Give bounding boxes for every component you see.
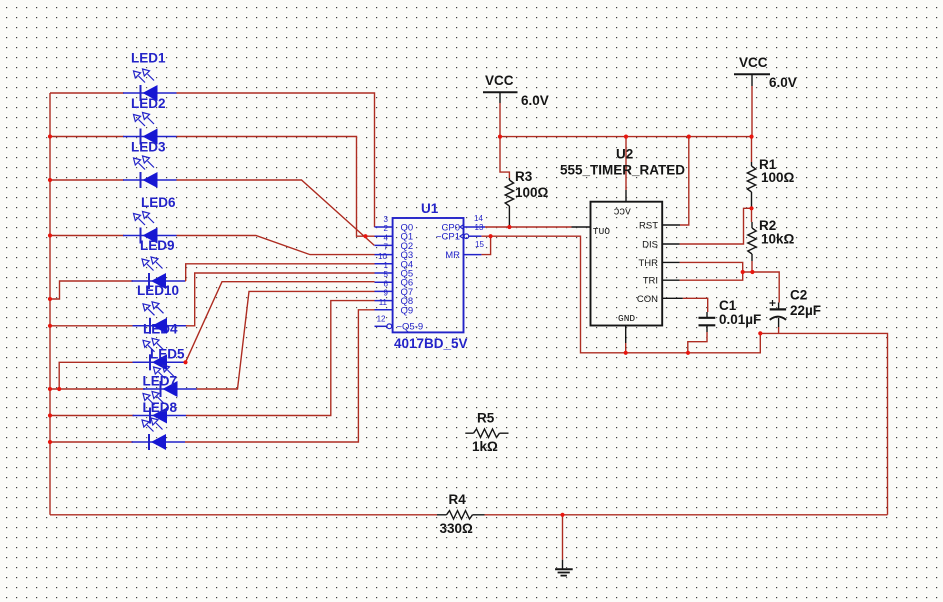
wire CP0 to OUT net [485,226,572,228]
U1 pin 12 carry stub [375,325,387,327]
U1 CP1 bubble [464,234,469,239]
svg-text:14: 14 [474,214,483,223]
LED LED4 [132,418,186,450]
wire DIS to R1R2 junction [680,208,752,244]
svg-text:MR: MR [445,250,460,261]
svg-text:VCC: VCC [739,55,768,70]
svg-text:7: 7 [384,243,389,252]
wire anode LED7 to Q7 slant [197,291,375,389]
svg-text:GND: GND [618,313,635,324]
wire VCC right stem [751,86,753,137]
resistor R4 [437,511,485,519]
U2 OUT pin stub [572,226,591,228]
svg-text:C1: C1 [719,298,737,313]
U1 left pin stubs Q0-Q9 [375,227,393,310]
U1 MR pin stub [464,254,482,256]
svg-text:6: 6 [384,279,389,288]
svg-text:U2: U2 [616,147,633,162]
svg-text:2: 2 [384,224,389,233]
svg-text:1kΩ: 1kΩ [472,439,498,454]
U1 CP1 clock chevron [460,233,464,239]
wire ground drop [562,515,564,560]
op-amp U1 4017 counter box [393,218,464,332]
wire anode LED10b to Q9 [185,310,375,442]
svg-text:~CP1: ~CP1 [436,232,460,243]
wire LED10b cathode row [50,441,133,443]
svg-text:15: 15 [475,240,484,249]
svg-text:4017BD_5V: 4017BD_5V [394,336,468,351]
svg-text:9: 9 [384,289,389,298]
U2 inner labels [637,221,658,305]
wire THR junction [680,262,780,302]
wire anode LED8 to Q8 [186,301,375,416]
svg-text:R4: R4 [449,492,467,507]
wire U2 VCC pin [625,137,627,190]
svg-text:100Ω: 100Ω [515,185,549,200]
wire LED8 cathode row [50,415,134,417]
LED LED9 [132,257,186,289]
svg-text:R3: R3 [515,169,533,184]
wire anode LED10 to Q5 [186,273,375,326]
svg-text:13: 13 [475,223,484,232]
U2 DIS pin stub [662,243,679,245]
svg-text:DIS: DIS [642,240,658,251]
U1 CP1 pin stub [469,235,482,237]
wire R1 top [751,137,753,162]
U2 RST pin stub [662,224,680,226]
wire LED5 cathode row step [59,362,134,389]
LED LED5 [133,338,187,370]
svg-text:OUT: OUT [593,226,610,237]
LED LED6 [123,212,177,244]
wire C2 bottom rail to right side [760,327,887,515]
svg-text:100Ω: 100Ω [761,170,795,185]
svg-text:~Q5-9: ~Q5-9 [397,322,424,333]
resistor R5 [465,429,508,437]
svg-text:LED6: LED6 [141,195,176,210]
LED LED3 [123,156,177,188]
svg-text:6.0V: 6.0V [521,93,549,108]
wire anode LED6 to Q3 diagonal [177,236,375,255]
wire RST to rail [680,137,689,225]
U1 pin numbers left [377,215,389,323]
svg-text:0.01µF: 0.01µF [719,312,761,327]
svg-text:RST: RST [639,221,658,232]
wire LED2 cathode row [50,136,124,138]
power VCC right [734,74,770,86]
wire CON to C1 [683,298,708,312]
resistor R2 [748,222,756,261]
svg-text:THR: THR [638,258,658,269]
svg-text:5: 5 [384,270,389,279]
svg-text:C2: C2 [790,288,807,303]
power VCC left [483,92,518,103]
U2 VCC pin stub [625,190,627,202]
U2 CON pin stub [662,297,683,299]
svg-text:VCC: VCC [613,207,630,218]
U1 CP0 pin stub [464,226,486,228]
wire anode LED3 to Q2 diagonal [177,180,375,245]
capacitor C2 polarized [770,300,787,327]
wire C1 bottom to rail [688,332,707,353]
ground [555,560,573,576]
wire anode LED9 to Q4 [185,264,375,281]
wire anode LED2 to Q1 [177,137,375,237]
wire anode LED5 to Q6 diagonal [186,282,375,363]
wire MR link [481,236,490,254]
wire LED10 cathode row [50,325,134,327]
svg-text:4: 4 [384,233,389,242]
svg-text:10kΩ: 10kΩ [761,232,795,247]
svg-text:R5: R5 [477,411,495,426]
wire CP1 MR ground net [481,236,760,353]
wire TRI junction [680,272,743,280]
svg-text:VCC: VCC [485,73,514,88]
svg-text:CON: CON [637,294,658,305]
svg-text:U1: U1 [421,201,439,216]
wire LED6 cathode row [50,235,124,237]
U1 pin 12 bubble [387,324,392,329]
LED LED10 [133,302,187,334]
wire bottom rail right [485,514,888,516]
wire VCC left stem [500,103,509,178]
LED LED8 [133,392,187,424]
LED LED2 [123,113,177,145]
svg-text:Q9: Q9 [401,305,414,316]
U1 pin numbers right [474,214,484,249]
svg-text:LED7: LED7 [143,374,178,389]
svg-text:LED8: LED8 [143,400,178,415]
U2 THR pin stub [662,261,679,263]
wire LED9 cathode row step [50,281,133,299]
svg-text:10: 10 [378,252,387,261]
U1 CP0 clock chevron [460,224,464,230]
svg-text:TRI: TRI [643,276,658,287]
wire U2 GND pin [625,343,627,353]
resistor R3 [505,178,513,227]
svg-text:LED10: LED10 [137,283,179,298]
wire top rail [500,136,752,138]
svg-text:LED9: LED9 [140,238,175,253]
svg-text:3: 3 [384,215,389,224]
U2 555 timer box [591,202,663,326]
U1 inner labels right [436,223,460,262]
LED LED7 [143,365,197,397]
svg-text:22µF: 22µF [790,303,821,318]
wire left cathode bus [49,93,51,515]
svg-text:1: 1 [384,261,389,270]
svg-text:LED3: LED3 [131,140,166,155]
svg-text:330Ω: 330Ω [440,521,474,536]
svg-text:LED1: LED1 [131,51,166,66]
svg-text:LED5: LED5 [150,347,185,362]
U2 TRI pin stub [662,279,679,281]
resistor R1 [747,162,755,208]
wire LED1 cathode row [50,92,124,94]
wire R2 top [751,208,753,222]
LED LED1 [123,69,177,101]
U2 GND pin stub [625,326,627,344]
svg-text:12: 12 [377,314,386,323]
U1 inner labels [397,223,424,333]
svg-text:11: 11 [379,298,388,307]
wire anode LED1 to Q0 [177,93,375,227]
capacitor C1 [699,312,716,332]
wire R2 bottom [751,261,753,272]
svg-text:6.0V: 6.0V [769,75,797,90]
svg-text:LED2: LED2 [131,96,166,111]
svg-text:555_TIMER_RATED: 555_TIMER_RATED [560,163,685,178]
wire LED7 cathode row [50,388,145,390]
wire bottom rail left [50,514,437,516]
wire LED3 cathode row [50,179,124,181]
